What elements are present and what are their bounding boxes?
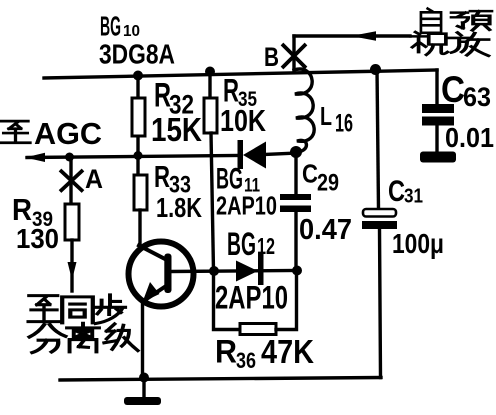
node: rail/R35 bbox=[205, 67, 215, 77]
wire: BG11 to L16 junction bbox=[265, 153, 297, 155]
arrowhead on input wire pointing left bbox=[351, 31, 376, 41]
wire: R35 bottom lead down to base node bbox=[211, 133, 214, 271]
transistor collector diagonal bbox=[139, 246, 167, 261]
transistor emitter arrowhead bbox=[143, 282, 160, 302]
ground bar (emitter) bbox=[124, 397, 161, 405]
svg-text:0.01: 0.01 bbox=[445, 122, 494, 153]
svg-text:47K: 47K bbox=[261, 333, 314, 370]
diode BG11 cathode bar bbox=[238, 140, 244, 169]
arrowhead to AGC pointing left bbox=[25, 153, 45, 162]
capacitor C31 positive plate (hollow) bbox=[363, 209, 396, 217]
label 至同步 bbox=[28, 295, 125, 324]
wire: C31 bottom lead bbox=[380, 229, 381, 378]
char 自 bbox=[421, 9, 441, 33]
diode BG12 triangle bbox=[236, 261, 258, 282]
svg-text:12: 12 bbox=[257, 233, 275, 259]
char 分 bbox=[30, 325, 66, 353]
svg-text:3DG8A: 3DG8A bbox=[99, 39, 175, 70]
node: L16/BG11/C29 bbox=[290, 146, 302, 158]
svg-text:1.8K: 1.8K bbox=[156, 192, 202, 223]
capacitor C29 top plate bbox=[280, 194, 311, 200]
svg-text:BG: BG bbox=[100, 11, 121, 42]
svg-text:A: A bbox=[85, 164, 103, 194]
node: C29/BG12/R36 bbox=[292, 266, 302, 276]
char 视 bbox=[411, 32, 448, 55]
wire: base node horizontal bbox=[172, 271, 297, 272]
wire: ground rail bottom bbox=[60, 378, 381, 381]
svg-text:63: 63 bbox=[463, 82, 491, 112]
node: AGC/R32-R33 bbox=[134, 151, 143, 160]
node: base/R35/R36 bbox=[209, 266, 219, 276]
wire: R39 bottom lead bbox=[70, 240, 73, 291]
capacitor C29 bottom plate bbox=[280, 206, 311, 213]
wire: C63 top lead from rail corner bbox=[435, 70, 438, 106]
char 离 bbox=[67, 323, 99, 352]
svg-text:B: B bbox=[264, 42, 279, 72]
transistor base bar bbox=[164, 254, 171, 294]
arrowhead down on R39 lead bbox=[68, 262, 77, 280]
diode BG12 anode bar bbox=[258, 253, 264, 285]
wire: ground stub under emitter bbox=[142, 378, 145, 397]
node A branch vertical bbox=[69, 157, 72, 204]
wire: collector lead bbox=[138, 210, 141, 246]
wire: R36 right leg bbox=[276, 270, 297, 330]
node A X mark bbox=[60, 170, 83, 192]
wire: top supply rail bbox=[44, 70, 437, 78]
resistor R39 body bbox=[65, 204, 79, 240]
label 自预视放 bbox=[411, 9, 492, 56]
transistor BG10 circle bbox=[129, 242, 194, 307]
resistor R32 leads bbox=[136, 76, 139, 156]
svg-text:100μ: 100μ bbox=[392, 228, 444, 259]
char 至 (2) bbox=[28, 296, 60, 322]
diode BG11 triangle bbox=[243, 142, 266, 169]
svg-text:BG: BG bbox=[227, 226, 256, 262]
capacitor C63 bottom plate bbox=[422, 117, 454, 126]
resistor R35 body bbox=[204, 98, 217, 133]
char 同 bbox=[62, 297, 93, 323]
transistor emitter diagonal bbox=[145, 286, 166, 300]
svg-text:R: R bbox=[154, 159, 170, 194]
node: emitter/ground rail bbox=[139, 373, 149, 383]
svg-text:R: R bbox=[12, 192, 32, 227]
wire: R36 left leg bbox=[214, 271, 241, 330]
resistor R32 body bbox=[132, 98, 145, 136]
svg-text:31: 31 bbox=[404, 186, 423, 208]
capacitor C31 negative plate bbox=[362, 221, 397, 229]
wire: C29 bottom lead bbox=[294, 212, 297, 270]
resistor R36 body bbox=[240, 324, 276, 335]
label 至AGC bbox=[1, 121, 30, 143]
resistor R35 top lead bbox=[208, 71, 211, 98]
svg-text:36: 36 bbox=[236, 348, 256, 373]
wire: R33 top lead bbox=[136, 156, 139, 175]
char 预 bbox=[452, 11, 492, 30]
svg-text:0.47: 0.47 bbox=[299, 214, 352, 246]
svg-text:AGC: AGC bbox=[34, 116, 102, 151]
wire: C63 bottom stub bbox=[435, 123, 438, 153]
svg-text:C: C bbox=[302, 159, 318, 189]
node B vertical stub bbox=[292, 36, 295, 70]
svg-text:16: 16 bbox=[335, 110, 353, 138]
char 放 bbox=[449, 33, 489, 56]
resistor R33 body bbox=[134, 175, 147, 210]
svg-text:10K: 10K bbox=[220, 103, 266, 138]
inductor L16 coil bbox=[294, 69, 314, 152]
svg-text:R: R bbox=[215, 334, 237, 370]
node B X mark bbox=[282, 44, 306, 68]
svg-text:C: C bbox=[388, 175, 405, 208]
svg-text:15K: 15K bbox=[151, 111, 202, 148]
wire: AGC rail (second horizontal) bbox=[27, 156, 238, 158]
wire: C31 top lead from rail bbox=[377, 69, 379, 209]
svg-text:10: 10 bbox=[123, 23, 140, 40]
node: rail/R32 bbox=[133, 71, 143, 81]
capacitor C63 top plate bbox=[422, 104, 454, 113]
char 步 bbox=[95, 295, 125, 324]
svg-text:2AP10: 2AP10 bbox=[215, 280, 288, 316]
junction node dots bbox=[65, 64, 381, 383]
svg-text:C: C bbox=[441, 69, 465, 110]
char 级 bbox=[104, 324, 138, 351]
svg-text:29: 29 bbox=[317, 170, 339, 197]
wire: input from pre-video amp bbox=[294, 34, 410, 37]
ground bar (C63) bbox=[420, 152, 456, 163]
wire: C29 top lead bbox=[294, 152, 297, 195]
svg-text:2AP10: 2AP10 bbox=[216, 191, 277, 221]
svg-text:L: L bbox=[320, 101, 332, 131]
node: rail/C31 bbox=[370, 64, 381, 75]
wire: emitter lead down bbox=[141, 303, 144, 378]
label 分离级 bbox=[30, 323, 138, 352]
svg-text:130: 130 bbox=[16, 223, 59, 254]
node: AGC/A bbox=[65, 153, 74, 162]
